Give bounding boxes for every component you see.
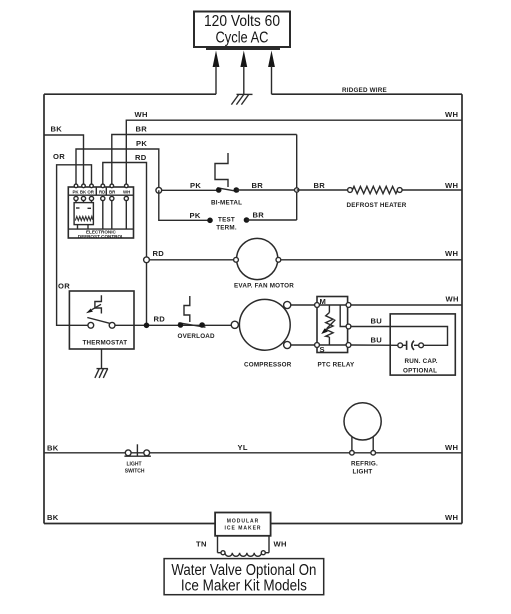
wire PK to test terminal bbox=[159, 190, 210, 220]
wire WH from relay M bbox=[351, 304, 462, 306]
pins top row of U1 bbox=[74, 184, 128, 188]
node PK junction bbox=[156, 187, 219, 193]
svg-text:RUN. CAP.: RUN. CAP. bbox=[405, 358, 438, 365]
wire RD row to compressor bbox=[134, 324, 236, 326]
svg-text:BK: BK bbox=[47, 444, 59, 453]
wire BR vertical drop bbox=[296, 135, 298, 221]
svg-text:WH: WH bbox=[445, 110, 458, 119]
svg-text:RD: RD bbox=[99, 189, 105, 194]
wire BR bbox=[112, 135, 297, 187]
supply box 120V bbox=[194, 12, 290, 49]
svg-text:BR: BR bbox=[136, 125, 148, 134]
svg-text:BR: BR bbox=[252, 181, 264, 190]
light switch S2 bbox=[124, 444, 150, 456]
svg-text:YL: YL bbox=[238, 443, 248, 452]
svg-text:Ice Maker Kit Models: Ice Maker Kit Models bbox=[181, 578, 307, 595]
pins second row of U1 bbox=[74, 196, 129, 200]
arrow ground lead bbox=[240, 51, 247, 95]
svg-text:RD: RD bbox=[135, 153, 147, 162]
svg-text:WH: WH bbox=[445, 249, 458, 258]
svg-text:BR: BR bbox=[314, 181, 326, 190]
svg-text:OVERLOAD: OVERLOAD bbox=[178, 333, 216, 340]
svg-text:WH: WH bbox=[445, 443, 458, 452]
svg-text:M: M bbox=[320, 297, 327, 306]
wire compressor M to relay bbox=[287, 304, 317, 306]
wire BR from bi-metal bbox=[236, 189, 296, 191]
svg-text:TERM.: TERM. bbox=[216, 225, 237, 232]
svg-text:BI-METAL: BI-METAL bbox=[211, 200, 242, 207]
wire RD bbox=[103, 163, 147, 326]
svg-text:RIDGED WIRE: RIDGED WIRE bbox=[342, 87, 387, 94]
node RD junction evap bbox=[144, 257, 236, 263]
svg-text:OPTIONAL: OPTIONAL bbox=[403, 368, 437, 375]
node RD dot bbox=[144, 323, 150, 329]
note box water valve bbox=[164, 559, 324, 595]
PTC relay K1 bbox=[315, 297, 351, 355]
svg-text:EVAP. FAN MOTOR: EVAP. FAN MOTOR bbox=[234, 283, 294, 290]
svg-text:BR: BR bbox=[253, 211, 265, 220]
svg-text:LIGHT: LIGHT bbox=[127, 462, 142, 468]
wire BK bbox=[44, 135, 84, 186]
svg-text:S: S bbox=[320, 345, 325, 354]
svg-text:BK: BK bbox=[51, 125, 63, 134]
label TEST TERM. bbox=[216, 217, 237, 232]
wire PK bbox=[76, 149, 159, 190]
arrow L2 bbox=[268, 51, 275, 95]
wire BR to test terminal bbox=[247, 219, 297, 221]
svg-text:OR: OR bbox=[58, 282, 70, 291]
svg-text:THERMOSTAT: THERMOSTAT bbox=[83, 340, 128, 347]
node BR junction bbox=[295, 188, 299, 192]
wire WH from fan bbox=[281, 259, 462, 261]
wire WH top bbox=[126, 120, 462, 186]
svg-text:MODULAR: MODULAR bbox=[227, 519, 260, 525]
bi-metal switch bbox=[215, 153, 239, 193]
compressor terminals bbox=[284, 301, 291, 348]
evap fan motor M1 bbox=[234, 238, 281, 279]
svg-text:BU: BU bbox=[371, 317, 383, 326]
overload protector bbox=[178, 296, 206, 328]
svg-text:REFRIG.: REFRIG. bbox=[351, 461, 378, 468]
svg-text:BU: BU bbox=[371, 336, 383, 345]
cabinet border (outer rectangle) bbox=[44, 94, 462, 523]
svg-text:TN: TN bbox=[196, 540, 207, 549]
svg-text:SWITCH: SWITCH bbox=[125, 469, 145, 475]
svg-text:PK: PK bbox=[190, 211, 201, 220]
thermostat S1 bbox=[69, 291, 134, 349]
svg-text:WH: WH bbox=[135, 110, 148, 119]
arrow L1 bbox=[213, 51, 220, 95]
svg-text:WH: WH bbox=[445, 181, 458, 190]
svg-text:Water Valve Optional On: Water Valve Optional On bbox=[171, 562, 316, 579]
wire compressor S to relay bbox=[287, 344, 317, 346]
svg-text:Cycle AC: Cycle AC bbox=[216, 30, 269, 47]
svg-text:RD: RD bbox=[153, 249, 165, 258]
svg-text:PK BK OR: PK BK OR bbox=[73, 189, 95, 194]
wire WH from heater bbox=[402, 189, 462, 191]
label LIGHT SWITCH bbox=[125, 462, 145, 475]
wire BU upper bbox=[351, 327, 448, 346]
wire to defrost heater bbox=[297, 189, 350, 191]
svg-text:OR: OR bbox=[53, 152, 65, 161]
svg-text:PTC RELAY: PTC RELAY bbox=[318, 362, 356, 369]
svg-text:DEFROST CONTROL: DEFROST CONTROL bbox=[78, 234, 124, 239]
svg-text:WH: WH bbox=[274, 540, 287, 549]
svg-text:BK: BK bbox=[47, 513, 59, 522]
wire BU lower bbox=[351, 344, 398, 346]
compressor motor M2 bbox=[231, 299, 290, 350]
ground (top, chassis) bbox=[231, 94, 252, 104]
modular ice maker A1 bbox=[215, 513, 271, 536]
electronic defrost control U1 bbox=[68, 187, 133, 239]
wire BK/YL/WH light row bbox=[44, 452, 462, 454]
ground (thermostat) bbox=[95, 349, 108, 378]
svg-text:COMPRESSOR: COMPRESSOR bbox=[244, 362, 292, 369]
relay element inside U1 bbox=[74, 203, 93, 225]
svg-text:ICE MAKER: ICE MAKER bbox=[224, 526, 261, 532]
run capacitor C1 (optional) bbox=[390, 314, 455, 375]
refrigerator light LP1 bbox=[344, 403, 381, 455]
svg-text:WH: WH bbox=[445, 513, 458, 522]
svg-text:120 Volts 60: 120 Volts 60 bbox=[204, 13, 280, 30]
svg-text:LIGHT: LIGHT bbox=[353, 469, 373, 476]
test terminal PK dot bbox=[207, 218, 213, 224]
svg-text:BR: BR bbox=[109, 189, 116, 194]
defrost heater R1 bbox=[348, 186, 403, 193]
svg-text:WH: WH bbox=[123, 189, 130, 194]
label REFRIG. LIGHT bbox=[351, 461, 378, 476]
svg-text:PK: PK bbox=[190, 181, 201, 190]
ice maker coil L1 bbox=[218, 536, 270, 557]
svg-text:PK: PK bbox=[136, 139, 147, 148]
svg-text:DEFROST HEATER: DEFROST HEATER bbox=[347, 202, 407, 209]
test terminal BR dot bbox=[244, 217, 250, 223]
svg-text:WH: WH bbox=[446, 295, 459, 304]
wire OR bbox=[57, 165, 92, 325]
svg-text:RD: RD bbox=[154, 315, 166, 324]
svg-text:TEST: TEST bbox=[218, 217, 235, 224]
internal wires of U1 bbox=[76, 201, 126, 230]
